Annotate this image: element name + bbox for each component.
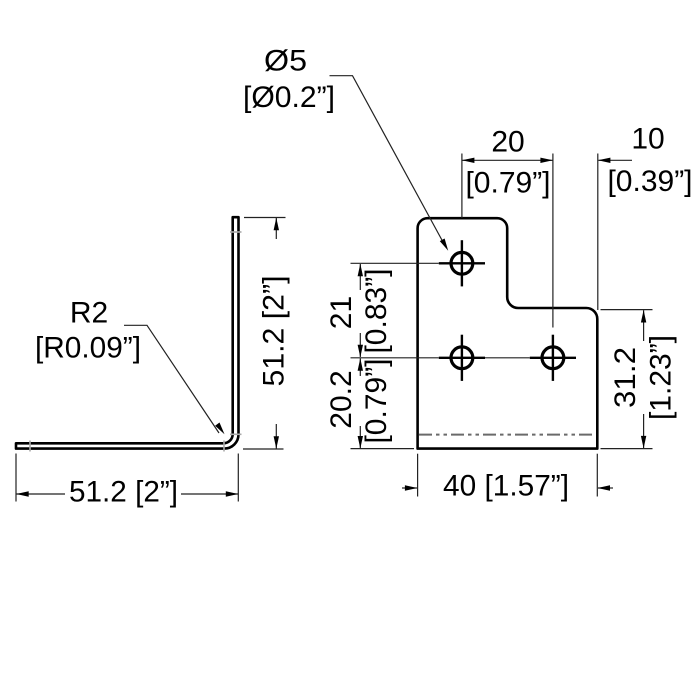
gray tangent tick on leg near top — [230, 231, 242, 233]
dimension 51.2 [2"] horizontal right segment + arrow — [181, 493, 238, 495]
extension line from right edge up (x=598) — [597, 154, 599, 311]
dimension 20.2 line segments + arrows — [359, 358, 361, 376]
dimension 20 line with arrows — [462, 159, 553, 161]
dimension 21 line segments + arrows — [359, 264, 361, 290]
extension line left from bottom edge (y=449) — [351, 448, 415, 450]
svg-text:[0.83”]: [0.83”] — [360, 268, 393, 353]
part front-view outline — [418, 218, 598, 448]
dimension 51.2 [2"] vertical line top segment + arrow — [275, 218, 277, 239]
thin line between middle holes — [485, 357, 530, 359]
svg-text:Ø5: Ø5 — [264, 45, 307, 78]
hole top circle — [451, 252, 473, 274]
extension line right from bottom edge (y=449) — [601, 448, 653, 450]
Ø5 leader arrowhead — [440, 239, 448, 251]
extension line left from middle holes (y=358) — [351, 357, 439, 359]
part side-view L profile — [16, 217, 239, 448]
dimension 31.2 line segments + arrows — [643, 310, 645, 341]
hole middle-left circle — [451, 347, 473, 369]
svg-text:51.2 [2”]: 51.2 [2”] — [69, 476, 178, 509]
bend dash-dot line — [419, 434, 596, 436]
extension line bottom left of L view — [15, 454, 17, 502]
extension line bottom right (horizontal dim) — [237, 454, 239, 502]
extension line below left edge (x=418) — [417, 454, 419, 497]
svg-text:R2: R2 — [70, 297, 108, 330]
svg-text:[0.79”]: [0.79”] — [360, 358, 393, 443]
hole middle-right circle — [542, 347, 564, 369]
svg-text:31.2: 31.2 — [609, 347, 642, 408]
svg-text:20: 20 — [491, 126, 524, 159]
dimension 40 arrows (outside) — [402, 487, 417, 489]
gray tangent tick on strip near left end — [29, 441, 31, 452]
svg-text:51.2 [2”]: 51.2 [2”] — [258, 276, 291, 387]
extension line below right edge (x=597) — [596, 454, 598, 497]
gray tick at bend tangent (vertical leg) — [230, 433, 242, 435]
hole top crosshair — [439, 262, 485, 264]
svg-text:[0.79”]: [0.79”] — [465, 167, 550, 200]
svg-text:20.2: 20.2 — [325, 370, 358, 428]
svg-text:[Ø0.2”]: [Ø0.2”] — [243, 81, 335, 114]
Ø5 leader line — [330, 76, 444, 242]
dimension 10 arrow (outside, pointing left) — [599, 159, 633, 161]
svg-text:40 [1.57”]: 40 [1.57”] — [443, 470, 569, 503]
hole middle-left crosshair — [439, 357, 485, 359]
extension line bottom right of L view — [243, 448, 284, 450]
extension line right from step edge (y=310) — [601, 309, 653, 311]
extension line from top hole up (x=462) — [461, 154, 463, 219]
svg-text:[R0.09”]: [R0.09”] — [35, 332, 141, 365]
R2 leader arrowhead — [215, 423, 224, 435]
svg-text:[0.39”]: [0.39”] — [607, 165, 692, 198]
gray tick at bend tangent (horizontal leg) — [223, 441, 225, 452]
dimension 51.2 [2"] vertical line bottom segment + arrow — [275, 424, 277, 449]
dimension 51.2 [2"] horizontal left segment + arrow — [17, 493, 66, 495]
svg-text:[1.23”]: [1.23”] — [645, 335, 678, 420]
svg-text:21: 21 — [325, 296, 358, 329]
extension line top right of L view — [244, 217, 286, 219]
hole middle-right crosshair — [530, 357, 576, 359]
extension line from right hole up (x=553) — [552, 154, 554, 328]
svg-text:10: 10 — [631, 123, 664, 156]
R2 leader line — [124, 325, 219, 433]
extension line left from top hole (y=263) — [351, 262, 439, 264]
